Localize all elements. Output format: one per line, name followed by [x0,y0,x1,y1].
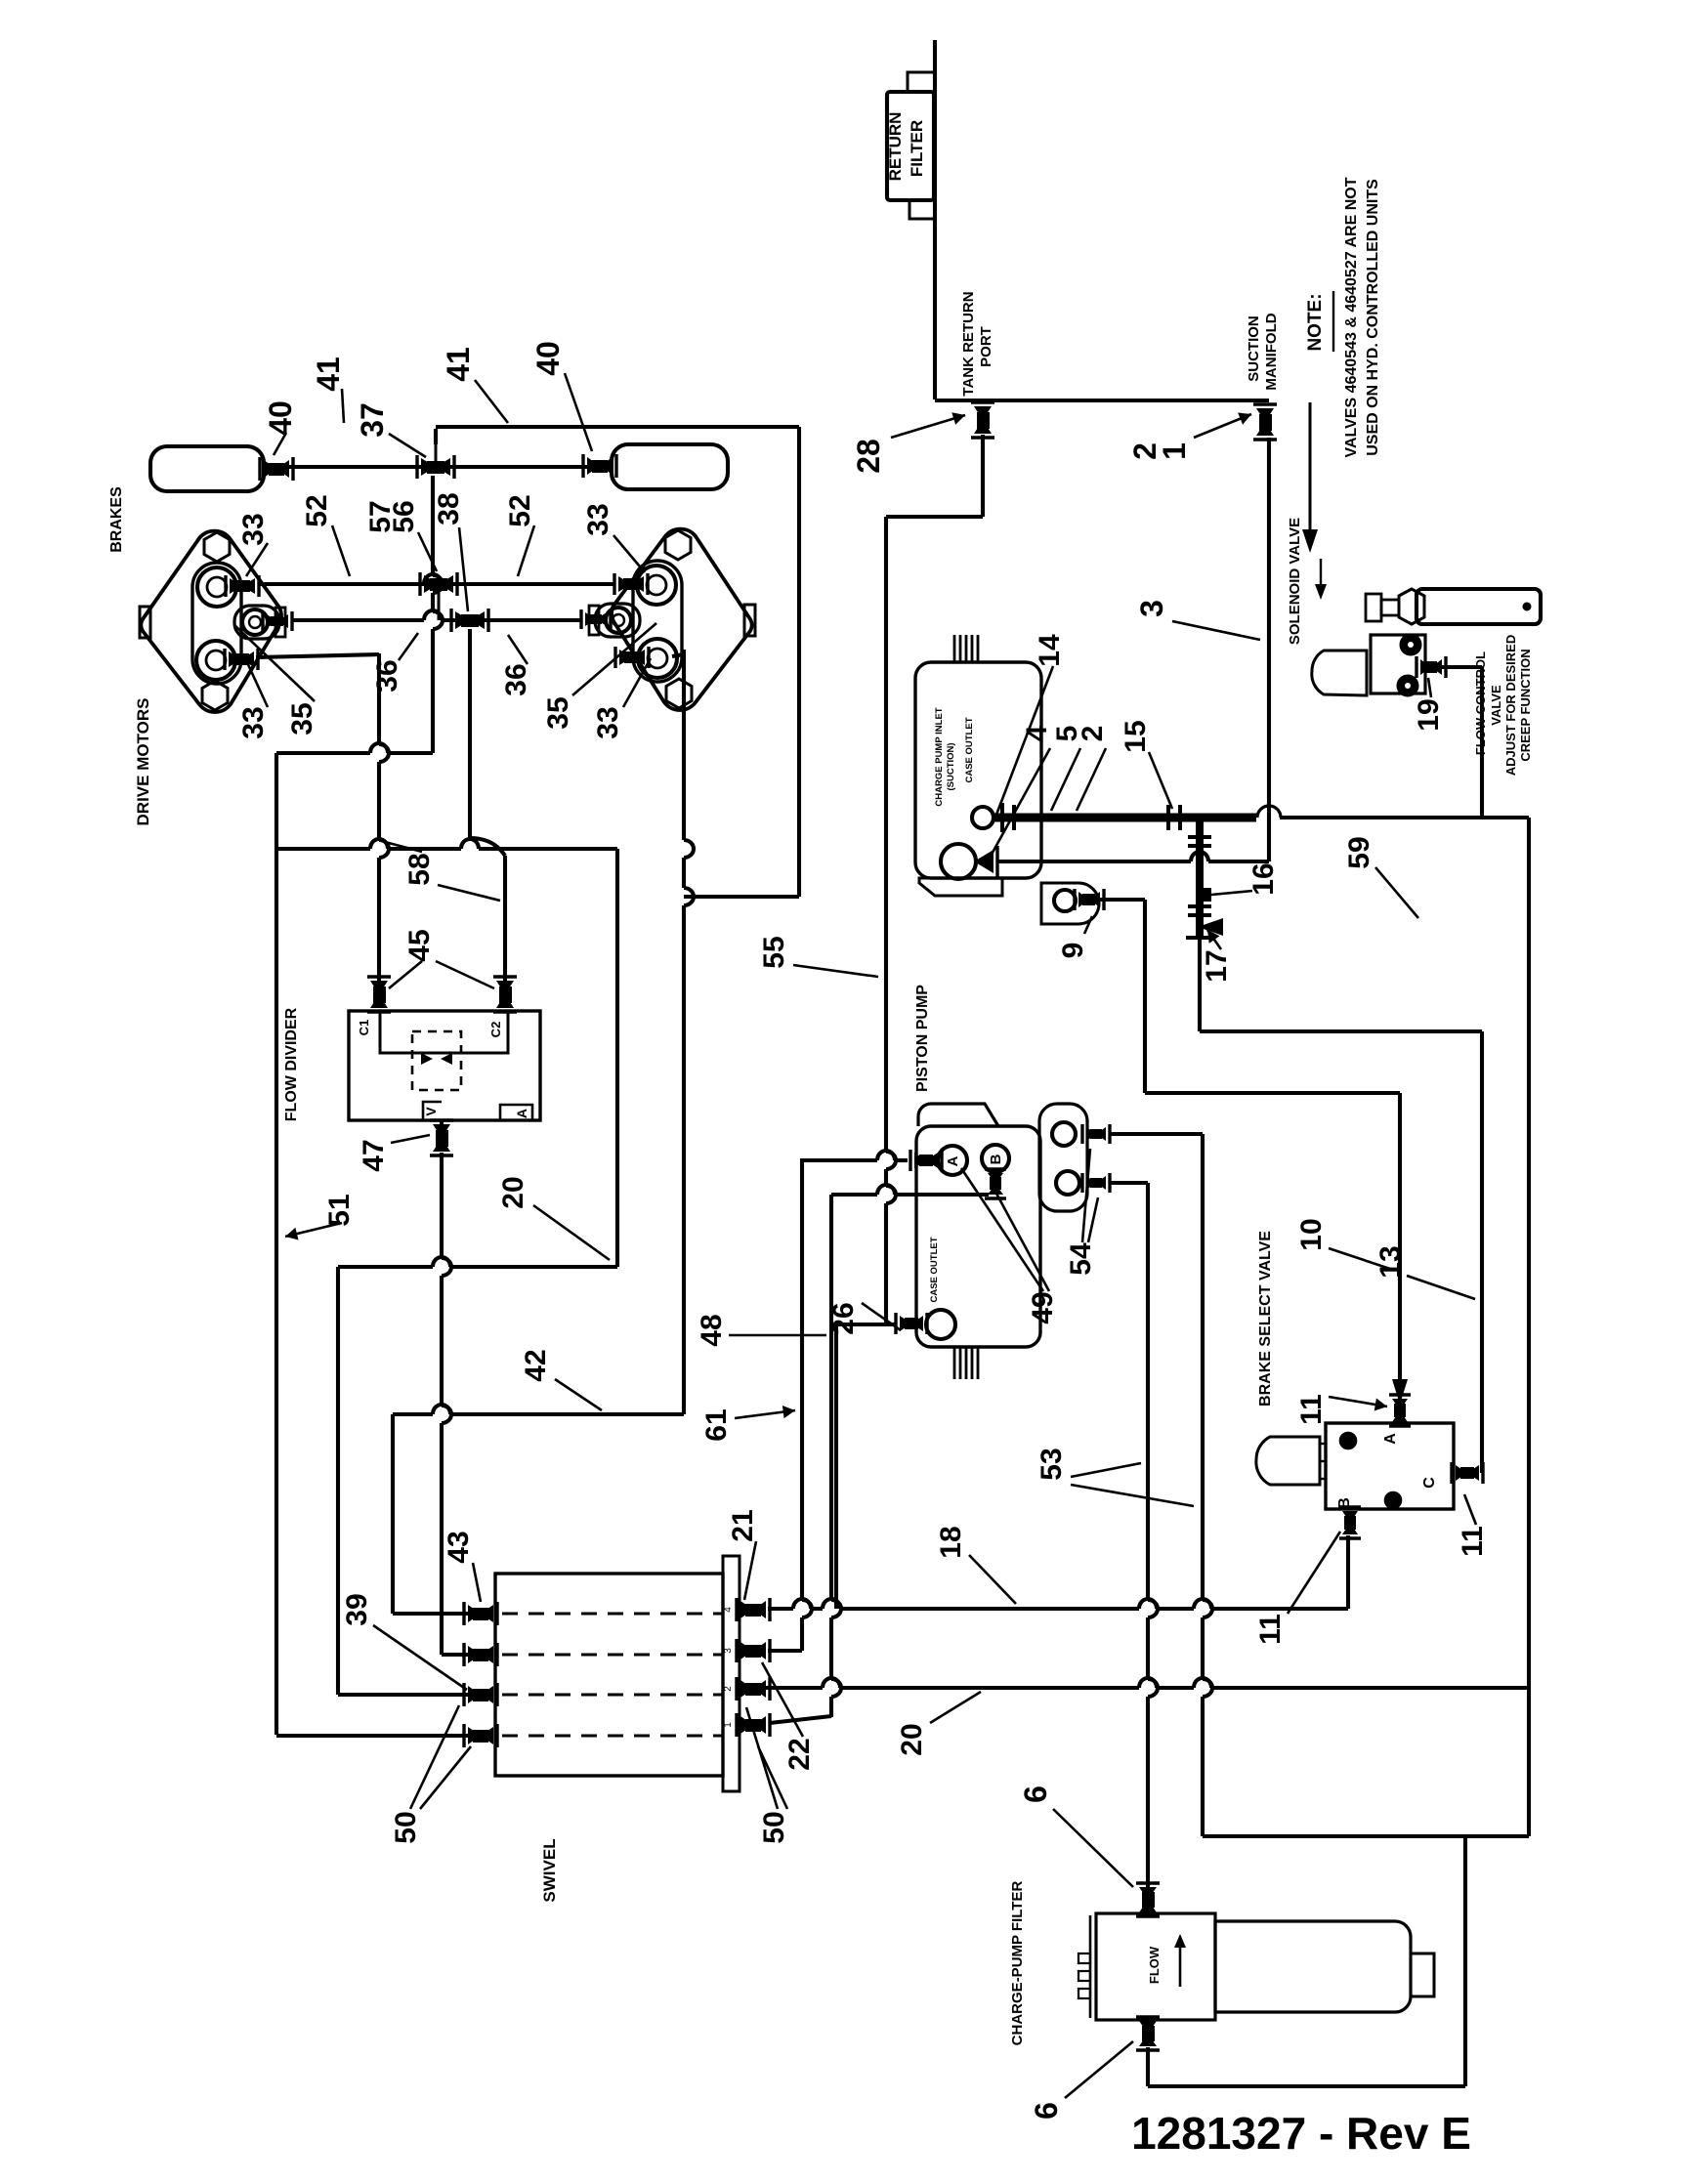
wire 53 right drop [1201,1134,1205,1600]
svg-text:33: 33 [592,706,624,738]
svg-text:A: A [1382,1433,1399,1445]
svg-text:52: 52 [504,494,536,526]
svg-text:RETURN: RETURN [886,112,905,182]
wire C2 jog [470,838,505,856]
wire suction line thin [1280,816,1529,819]
svg-text:53: 53 [1036,1448,1068,1480]
svg-text:55: 55 [758,936,790,968]
svg-text:SWIVEL: SWIVEL [540,1838,559,1902]
svg-text:PISTON PUMP: PISTON PUMP [914,985,931,1092]
svg-text:6: 6 [1018,1785,1053,1803]
wire M1 bottom port to C1 drop [256,654,379,657]
svg-text:B: B [988,1154,1004,1164]
svg-text:54: 54 [1065,1242,1097,1276]
wire brake line 41 [289,465,587,469]
svg-text:(SUCTION): (SUCTION) [946,742,956,790]
fitting 11 port C [1456,1465,1479,1481]
fitting swivel port2 right [740,1642,766,1659]
wire case outlet horizontal [836,1323,896,1326]
svg-text:3: 3 [1134,600,1169,617]
svg-text:A: A [514,1109,529,1118]
wire B to port4 link [770,1716,831,1723]
piston pump port B circle [982,1145,1009,1172]
flange port top [1052,1122,1076,1146]
fitting 45 C1 [370,981,388,1008]
fitting motor M2 bottom [619,650,645,665]
fitting 54 bottom [1086,1176,1106,1190]
svg-text:33: 33 [237,706,270,738]
fitting pump B [988,1173,1003,1195]
svg-text:43: 43 [443,1531,475,1563]
svg-text:35: 35 [542,696,574,729]
wire suction bar thick [993,814,1256,822]
flange mark 17b [1186,936,1213,940]
tee fitting 56 57 [424,575,453,593]
valve dot upper [1340,1433,1356,1449]
svg-text:3: 3 [723,1648,734,1654]
svg-text:TANK RETURN: TANK RETURN [960,291,977,396]
solenoid valve stack squares [1381,600,1399,615]
fitting swivel port4 left [468,1727,493,1744]
svg-text:VALVE: VALVE [1489,685,1503,726]
fitting swivel port4 right [740,1716,766,1734]
svg-text:FILTER: FILTER [908,120,926,177]
piston pump case outlet circle [926,1310,955,1339]
svg-text:NOTE:: NOTE: [1305,293,1326,351]
wire 51 upper horizontal [276,751,370,755]
svg-text:18: 18 [935,1526,967,1558]
svg-text:16: 16 [1247,862,1280,895]
fitting 11 port B [1342,1511,1358,1534]
svg-text:C1: C1 [357,1020,371,1036]
svg-text:FLOW DIVIDER: FLOW DIVIDER [283,1007,300,1121]
wire port3 left link [338,1693,468,1697]
solenoid valve block [1371,635,1425,693]
svg-text:CHARGE PUMP INLET: CHARGE PUMP INLET [934,707,945,806]
wire 59 bottom horizontal [1203,1834,1529,1838]
fitting 9 [1078,892,1100,907]
wire 52 top motor line [258,582,424,586]
wire 40 loop lower horizontal [684,895,799,899]
wire suction riser to solenoid [1480,667,1484,818]
wire port3 vertical [336,1267,340,1695]
svg-text:52: 52 [301,494,333,526]
svg-text:FLOW CONTROL: FLOW CONTROL [1473,651,1488,755]
svg-text:61: 61 [700,1408,733,1441]
svg-text:50: 50 [390,1811,422,1843]
piston pump PP1 body [916,1126,1040,1347]
fitting swivel port2 left [468,1646,493,1663]
brake select valve coil [1256,1437,1320,1485]
fitting 19 [1420,659,1442,675]
svg-text:33: 33 [237,513,270,545]
fitting 22 swivel port3 right [740,1680,766,1698]
motor M2 bolt bottom [666,679,692,708]
motor M2 port mid 35 [606,608,631,633]
motor M1 port mid 35 [242,609,268,635]
svg-text:20: 20 [896,1723,928,1755]
wire 10 horizontal [1145,1091,1400,1095]
svg-text:42: 42 [520,1349,552,1381]
piston pump port A circle [938,1146,967,1175]
swivel line 4 dashed [502,1735,723,1738]
fitting 21 swivel port1 right [740,1601,766,1618]
svg-text:20: 20 [497,1176,529,1208]
piston pump shaft hatch [953,1348,956,1379]
wire 59 drop [1463,1836,1467,2086]
svg-text:39: 39 [341,1593,373,1625]
wire C2 vertical [503,856,507,981]
fitting 26 case outlet [900,1316,923,1331]
svg-text:BRAKES: BRAKES [108,486,125,553]
svg-text:FLOW: FLOW [1147,1946,1162,1984]
wire 13 vertical [1480,1031,1484,1461]
svg-text:37: 37 [355,402,390,438]
svg-text:28: 28 [851,439,886,474]
svg-text:VALVES 4640543 & 4640527 ARE N: VALVES 4640543 & 4640527 ARE NOT [1343,177,1360,457]
flow divider pilot box dashed [412,1031,461,1090]
svg-text:36: 36 [500,663,532,695]
fitting brake B1 [264,460,289,478]
wire 13 upper horizontal [1198,940,1202,1031]
wire 17 stack vertical thick [1196,818,1204,940]
svg-text:36: 36 [371,659,403,692]
svg-text:CASE OUTLET: CASE OUTLET [929,1237,940,1302]
motor M2 bolt top [665,530,691,560]
svg-text:48: 48 [696,1314,728,1346]
svg-text:41: 41 [441,347,476,382]
svg-text:C: C [1421,1477,1438,1489]
svg-text:CREEP FUNCTION: CREEP FUNCTION [1518,649,1533,761]
svg-text:4: 4 [723,1607,734,1613]
wire filter bottom horizontal [1148,2084,1465,2088]
fitting 17 arrow [1198,918,1223,936]
flange mark 17a [1188,904,1211,908]
wire 10 drop to valve A [1398,1093,1402,1383]
svg-text:35: 35 [286,702,318,735]
wire pump A horizontal [802,1158,877,1162]
fitting 28 tank return port [974,406,992,434]
note arrow to solenoid valve [1309,402,1312,533]
svg-text:9: 9 [1057,943,1089,959]
return filter supply line [933,40,937,399]
wire port1 left link [393,1612,468,1616]
solenoid valve port top [1401,635,1420,654]
wire 18 riser to valve B [1346,1535,1350,1609]
flow divider FD1 body [349,1011,540,1120]
flange mark 16a [1188,835,1211,839]
svg-text:USED ON HYD. CONTROLLED UNITS: USED ON HYD. CONTROLLED UNITS [1365,179,1381,456]
svg-text:14: 14 [1034,634,1066,667]
svg-text:56: 56 [388,500,420,532]
wire pump B horizontal [831,1193,877,1197]
fitting 14 charge pump outlet [1000,803,1004,832]
svg-text:1281327 - Rev E: 1281327 - Rev E [1131,2108,1471,2159]
flow divider inner header [380,1011,508,1053]
wire 51 left bus [275,753,278,1735]
charge pump inlet circle [941,844,976,879]
flow divider A port notch [500,1105,532,1120]
svg-text:45: 45 [403,929,436,961]
svg-text:19: 19 [1413,698,1445,731]
fitting motor M2 top [618,576,644,592]
svg-text:MANIFOLD: MANIFOLD [1263,313,1280,390]
motor M1 bolt bottom [202,681,228,710]
wire A drop 61 [800,1158,804,1600]
svg-text:2: 2 [723,1686,734,1692]
svg-text:21: 21 [727,1509,759,1541]
wire valve C to 13 [1480,1461,1484,1473]
wire 58 crossover horizontal [276,847,370,851]
drive motor M2 right [612,529,751,710]
fitting motor M1 mid [267,614,288,628]
motor M1 port bottom 33 [196,641,235,680]
wire solenoid feed [1438,665,1482,669]
tank manifold line [935,399,1269,402]
wire M2 bottom drop [672,654,684,656]
swivel line 3 dashed [502,1694,723,1697]
svg-text:49: 49 [1027,1291,1059,1323]
fitting 39 swivel port3 left [468,1686,493,1703]
svg-text:40: 40 [530,341,566,376]
charge pump small port circle [972,807,993,828]
svg-text:11: 11 [1295,1394,1328,1425]
motor M2 port bottom 33 [638,639,677,678]
piston pump top cap [918,1104,998,1126]
svg-text:CASE OUTLET: CASE OUTLET [964,717,975,782]
solenoid valve port bottom [1398,676,1417,695]
wire port1 vertical [391,1414,395,1614]
svg-text:PORT: PORT [978,326,994,367]
flange port bottom [1056,1171,1079,1195]
svg-text:41: 41 [311,357,346,392]
svg-text:DRIVE MOTORS: DRIVE MOTORS [134,698,152,826]
fitting motor M1 bottom [229,651,254,667]
wire tee37 drop [431,476,435,575]
charge pump base skirt [919,878,1002,896]
motor M1 bolt top [204,532,230,562]
return filter RF1 [887,92,934,200]
charge pump shaft hatch [953,635,956,661]
svg-text:58: 58 [403,853,436,885]
svg-text:40: 40 [263,400,298,436]
svg-text:11: 11 [1254,1614,1287,1645]
swivel line 1 dashed [502,1613,723,1616]
swivel line 2 dashed [502,1654,723,1657]
wire port2 left link [442,1653,468,1657]
wire port4 left link [276,1734,468,1738]
svg-text:15: 15 [1120,720,1152,752]
flange mark 15 [1166,805,1170,830]
fitting 1 2 suction manifold [1256,408,1274,436]
solenoid valve coil [1312,651,1367,695]
wire filter drop [1146,2047,1150,2086]
fitting motor M2 mid [585,612,607,626]
solenoid valve tube [1416,589,1541,624]
brake B1 left [150,446,264,491]
fitting 6 filter bottom [1139,2021,1157,2046]
motor M2 port top 33 [637,566,676,605]
wire 54 bottom to filter drop [1110,1181,1148,1185]
wire 54 top to loop [1110,1132,1203,1136]
fitting motor M1 top [230,578,255,594]
svg-text:ADJUST FOR DESIRED: ADJUST FOR DESIRED [1503,635,1518,776]
svg-text:1: 1 [1157,442,1192,460]
wire 18 bus [768,1607,793,1611]
svg-text:17: 17 [1201,949,1233,982]
wire case drain drop [834,1324,838,1609]
svg-text:C2: C2 [488,1022,503,1038]
wire 55 tank return drop jog [981,435,985,517]
fitting 47 [433,1124,450,1152]
svg-text:A: A [945,1155,961,1166]
brake B2 right [612,444,728,489]
drive motor M1 left [141,531,280,712]
piston pump flange [1039,1104,1087,1211]
svg-text:SUCTION: SUCTION [1246,315,1262,382]
valve dot lower [1385,1492,1401,1508]
wire 38 to C2 vertical [468,629,472,838]
fitting 43 swivel port1 left [468,1605,493,1622]
filter ribs [1078,1953,1090,1963]
svg-text:38: 38 [433,492,465,525]
wire 59 right bus [1527,818,1531,1836]
svg-text:4: 4 [1021,725,1053,741]
svg-text:V: V [423,1107,439,1116]
solenoid valve hex nut [1399,589,1424,624]
flow divider V port notch [423,1102,442,1120]
fitting brake B2 [587,457,613,475]
fitting 11 port A [1392,1399,1408,1422]
charge pump 9 port lobe [1041,883,1099,924]
wire 20 bus [766,1686,823,1690]
tee fitting 37 [421,458,450,476]
wire C1 vertical [377,653,381,744]
wire 47 drop to swivel port2 [440,1153,444,1258]
wire 40 loop right vertical [797,427,801,897]
charge pump CP1 body [915,662,1041,878]
flow arrow [1179,1944,1182,1987]
swivel right plate [723,1556,740,1791]
wire middle motor line 36 [292,618,424,622]
svg-text:BRAKE SELECT VALVE: BRAKE SELECT VALVE [1257,1231,1274,1407]
svg-text:59: 59 [1343,836,1375,868]
swivel SW1 body [495,1574,723,1776]
fitting 45 C2 [496,981,514,1008]
wire port1 horizontal upper [393,1412,433,1416]
wire B drop 48 [829,1195,833,1600]
fitting 54 top [1086,1127,1106,1141]
wire 53 left drop [1146,1183,1150,1600]
wire 9 to 10 vertical [1143,900,1147,1093]
svg-text:SOLENOID VALVE: SOLENOID VALVE [1287,518,1303,645]
svg-text:51: 51 [323,1194,356,1226]
svg-text:13: 13 [1374,1245,1407,1278]
fitting 6 filter top [1139,1887,1157,1912]
fitting pump A [914,1153,938,1168]
brake select valve BSV1 body [1326,1423,1454,1509]
svg-text:50: 50 [758,1811,790,1843]
wire A to port2 link [768,1649,802,1653]
svg-text:11: 11 [1457,1526,1489,1557]
wire 58 right vertical [615,849,619,1267]
wire charge inlet horizontal [997,860,1191,863]
charge pump filter CF1 body [1096,1913,1215,2020]
wire port3 horizontal [338,1265,433,1269]
wire 41 top loop [434,429,438,444]
wire 3 suction manifold drop [1267,438,1271,861]
svg-text:CHARGE-PUMP FILTER: CHARGE-PUMP FILTER [1009,1881,1026,2046]
tee fitting 38 [455,611,485,629]
svg-text:22: 22 [783,1738,816,1770]
wire 9 to drop [1100,898,1145,902]
svg-text:47: 47 [358,1139,390,1171]
wire 55 bus vertical [884,517,888,1152]
svg-text:6: 6 [1029,2102,1064,2120]
filter end cap [1411,1953,1434,1996]
fitting 4 charge pump inlet [974,850,993,873]
fitting 16 tee [1202,888,1211,902]
motor M1 port top 33 [197,567,236,607]
svg-text:10: 10 [1295,1218,1328,1250]
svg-text:2: 2 [1077,726,1109,742]
svg-text:1: 1 [723,1722,734,1728]
svg-text:33: 33 [582,503,614,535]
filter canister [1215,1921,1411,2012]
